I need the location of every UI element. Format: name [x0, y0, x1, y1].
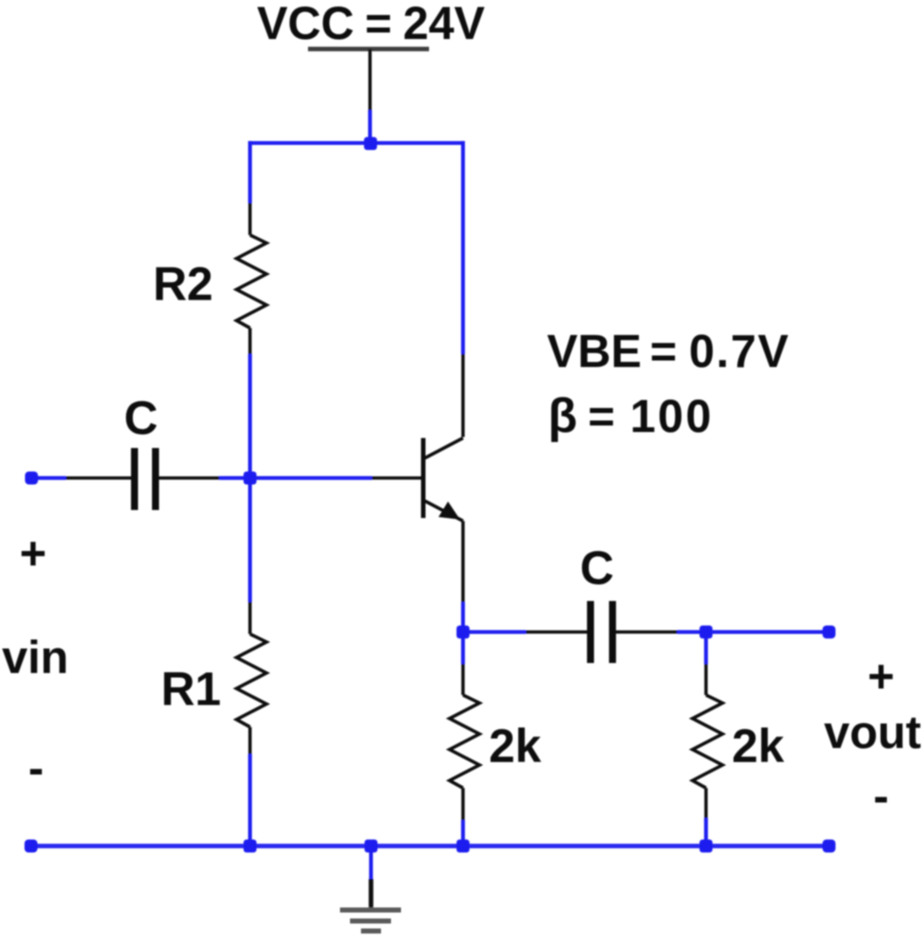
wire VCC stub blue [368, 110, 372, 143]
node rail left terminal [25, 840, 38, 853]
transistor Q1 [421, 438, 463, 521]
node input terminal [25, 472, 38, 485]
wire top rail [250, 141, 463, 145]
wire emitter resistor bottom blue [461, 820, 465, 846]
wire load resistor bottom blue [704, 818, 708, 846]
wire emitter black [461, 521, 464, 602]
wire emitter row blue right [677, 630, 829, 634]
svg-text:-: - [873, 770, 888, 822]
wire collector column blue [461, 141, 465, 354]
resistor R2 [237, 203, 267, 354]
svg-text:C: C [124, 391, 158, 444]
node rail right terminal [823, 840, 836, 853]
ground stub blue [369, 846, 373, 879]
capacitor C output [526, 601, 677, 663]
svg-text:vout: vout [824, 706, 921, 758]
wire base black lead [372, 476, 422, 479]
wire left column lower blue [248, 754, 252, 846]
wire left column mid blue [248, 354, 252, 602]
svg-text:+: + [20, 527, 47, 579]
svg-text:-: - [28, 742, 43, 794]
node rail R1 junction [244, 840, 257, 853]
svg-text:0.7V: 0.7V [689, 325, 790, 377]
resistor 2k load [693, 664, 723, 818]
svg-text:=: = [365, 0, 392, 49]
svg-text:vin: vin [2, 631, 68, 683]
svg-text:R1: R1 [161, 662, 221, 715]
node output junction [700, 626, 713, 639]
node rail ground junction [365, 840, 378, 853]
svg-text:β: β [548, 390, 577, 443]
wire left column upper blue [248, 141, 252, 203]
wire input stub blue [31, 476, 66, 480]
wire emitter row blue left [463, 630, 526, 634]
ground symbol [340, 910, 401, 931]
node output terminal [823, 626, 836, 639]
node emitter junction [457, 626, 470, 639]
svg-text:VBE: VBE [547, 325, 642, 377]
node rail emitter junction [457, 840, 470, 853]
svg-text:2k: 2k [489, 719, 542, 772]
wire VCC stub black [368, 49, 371, 112]
svg-text:100: 100 [630, 390, 713, 442]
wire base blue [219, 476, 372, 480]
resistor R1 [237, 602, 267, 754]
svg-text:=: = [588, 390, 615, 442]
node rail load junction [700, 840, 713, 853]
wire emitter resistor top blue [461, 632, 465, 664]
svg-text:VCC: VCC [257, 0, 354, 49]
svg-text:+: + [868, 650, 895, 702]
svg-text:C: C [580, 541, 614, 594]
wire collector black [461, 354, 464, 437]
ground stub black [369, 879, 374, 910]
svg-text:=: = [650, 325, 677, 377]
wire emitter blue [461, 602, 465, 632]
wire load resistor top blue [704, 632, 708, 664]
node base junction [244, 472, 257, 485]
power rail bar [308, 47, 429, 52]
wire bottom rail [31, 844, 829, 849]
svg-text:R2: R2 [153, 257, 213, 310]
capacitor C input [66, 448, 219, 510]
svg-text:2k: 2k [732, 719, 785, 772]
node VCC junction [364, 137, 377, 150]
resistor 2k emitter [450, 664, 480, 820]
svg-text:24V: 24V [403, 0, 485, 49]
